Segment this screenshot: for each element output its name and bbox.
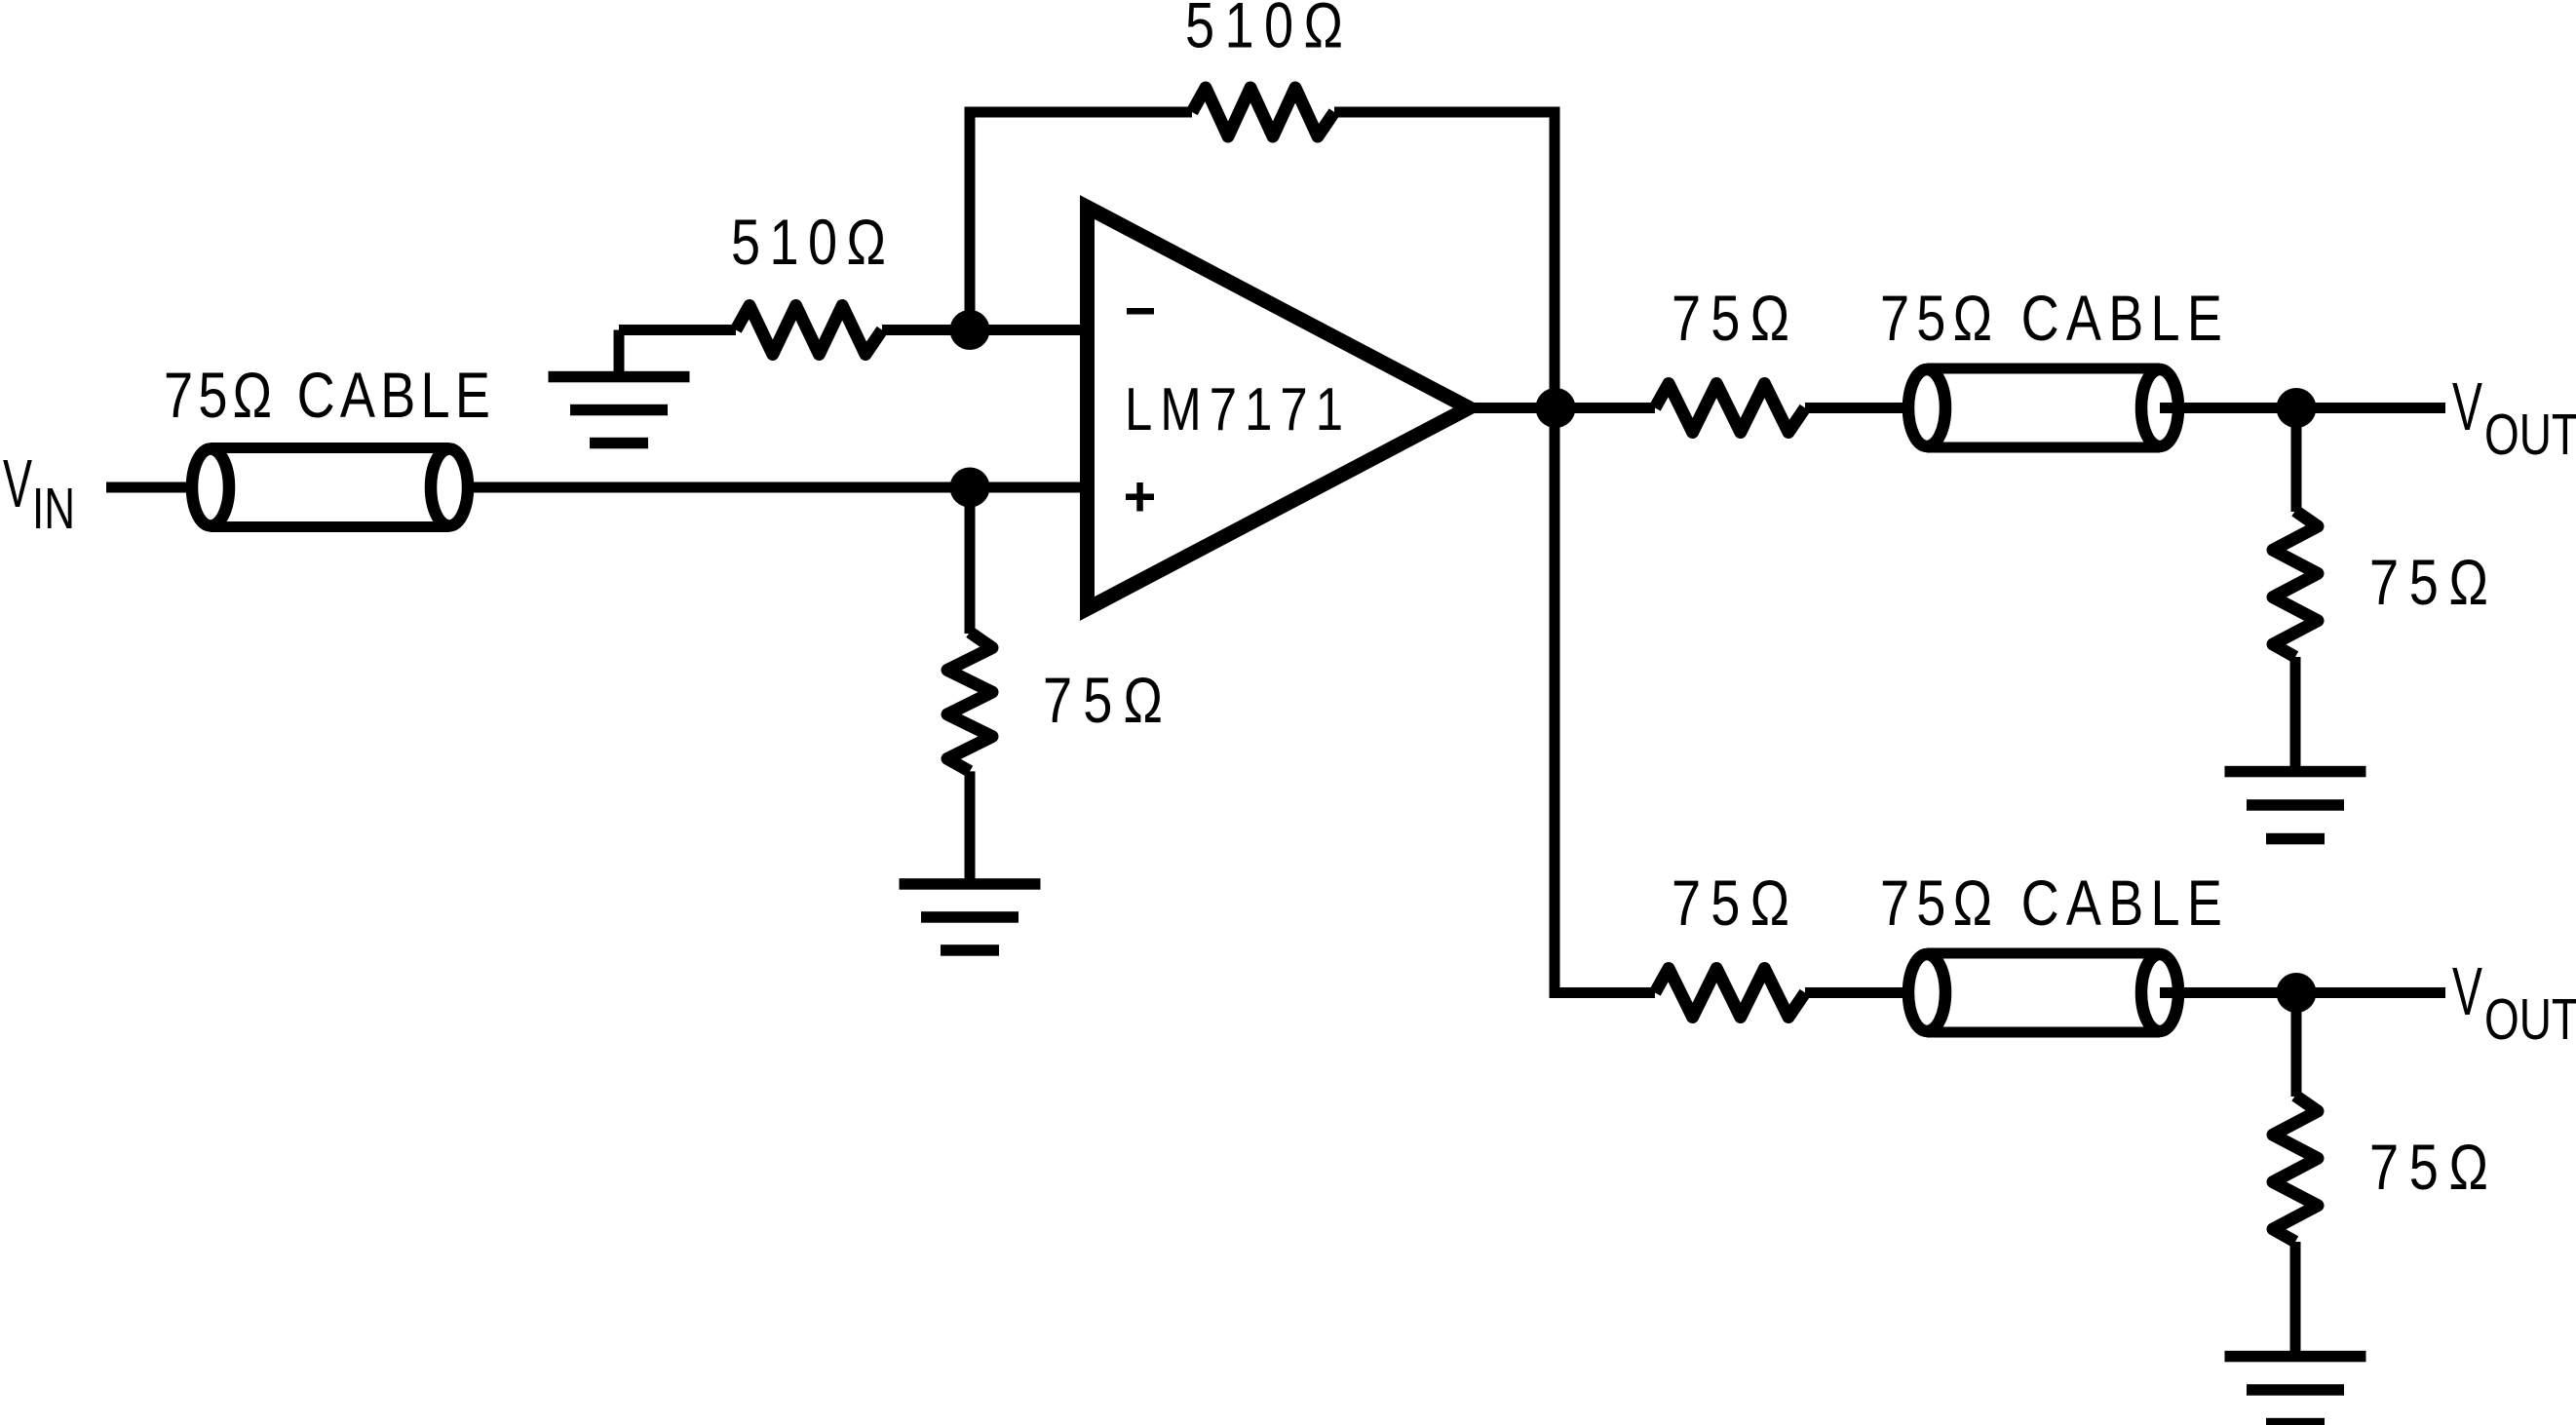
node C: output junction bbox=[1536, 388, 1576, 428]
label 75Ω CABLE (input) bbox=[164, 359, 490, 431]
wire feedback left vertical bbox=[965, 112, 976, 330]
label LM7171 bbox=[1125, 376, 1343, 443]
75Ω cable (input) bbox=[211, 443, 449, 453]
svg-text:75Ω: 75Ω bbox=[1672, 282, 1789, 354]
wire feedback top left bbox=[965, 107, 1193, 118]
wire R4 to top cable bbox=[1805, 403, 1927, 413]
node D: top VOUT junction bbox=[2277, 388, 2317, 428]
node B: inverting input junction bbox=[950, 310, 990, 350]
wire top cable to VOUT bbox=[2160, 403, 2445, 413]
wire bottom VOUT node down bbox=[2291, 993, 2302, 1098]
label 510Ω (R2) bbox=[1185, 0, 1343, 61]
label 75Ω CABLE (bottom) bbox=[1880, 867, 2222, 939]
resistor R5 75Ω (top termination) bbox=[2273, 511, 2318, 657]
svg-text:V: V bbox=[3, 446, 32, 522]
ground (input termination) bbox=[900, 878, 1041, 890]
label 75Ω (R4) bbox=[1672, 282, 1789, 354]
svg-text:V: V bbox=[2452, 954, 2482, 1030]
wire feedback top right bbox=[1334, 107, 1560, 118]
resistor R2 510Ω (feedback) bbox=[1192, 88, 1334, 136]
ground (inverting input reference) bbox=[614, 330, 625, 379]
label VIN bbox=[3, 446, 32, 522]
resistor R6 75Ω (bottom series) bbox=[1655, 969, 1805, 1018]
svg-text:75Ω: 75Ω bbox=[1043, 664, 1163, 736]
wire R3 to ground bbox=[965, 771, 976, 879]
label 75Ω (R3) bbox=[1043, 664, 1163, 736]
label 75Ω CABLE (top) bbox=[1880, 282, 2222, 354]
svg-text:75Ω: 75Ω bbox=[1672, 867, 1789, 939]
node E: bottom VOUT junction bbox=[2277, 973, 2317, 1013]
resistor R4 75Ω (top series) bbox=[1655, 384, 1805, 433]
wire output drop vertical bbox=[1550, 408, 1560, 993]
svg-text:510Ω: 510Ω bbox=[731, 206, 886, 278]
label 75Ω (R5) bbox=[2369, 546, 2488, 618]
svg-text:OUT: OUT bbox=[2484, 986, 2576, 1052]
wire feedback right vertical bbox=[1550, 112, 1560, 408]
svg-text:75Ω CABLE: 75Ω CABLE bbox=[1880, 282, 2222, 354]
svg-text:OUT: OUT bbox=[2484, 402, 2576, 467]
inverting input marker (−) bbox=[1127, 308, 1154, 315]
svg-text:510Ω: 510Ω bbox=[1185, 0, 1343, 61]
wire VIN lead bbox=[106, 482, 211, 493]
resistor R3 75Ω (input termination) bbox=[947, 633, 992, 772]
wire R1 to inverting input bbox=[882, 325, 1087, 335]
75Ω cable (bottom) bbox=[1927, 948, 2160, 959]
wire bottom cable to VOUT bbox=[2160, 987, 2445, 998]
75Ω cable (top) bbox=[1927, 364, 2160, 374]
wire input cable to noninverting input bbox=[449, 482, 1087, 493]
noninverting input marker (+) bbox=[1126, 494, 1154, 501]
wire R7 to ground bbox=[2290, 1242, 2301, 1352]
svg-text:75Ω: 75Ω bbox=[2369, 1131, 2488, 1203]
resistor R1 510Ω (input) bbox=[736, 306, 882, 355]
svg-text:V: V bbox=[2452, 369, 2482, 445]
label 75Ω (R7) bbox=[2369, 1131, 2488, 1203]
svg-text:75Ω: 75Ω bbox=[2369, 546, 2488, 618]
label 510Ω (R1) bbox=[731, 206, 886, 278]
resistor R7 75Ω (bottom termination) bbox=[2273, 1096, 2318, 1242]
node A: noninverting input junction bbox=[950, 468, 990, 508]
label VOUT (top) bbox=[2452, 369, 2482, 445]
svg-text:75Ω CABLE: 75Ω CABLE bbox=[1880, 867, 2222, 939]
ground (bottom termination) bbox=[2225, 1351, 2366, 1363]
label 75Ω (R6) bbox=[1672, 867, 1789, 939]
wire output to R4 bbox=[1556, 403, 1655, 413]
wire R5 to ground bbox=[2290, 657, 2301, 767]
wire op-amp output bbox=[1472, 403, 1556, 413]
wire top VOUT node down bbox=[2291, 408, 2302, 513]
wire noninverting node down bbox=[965, 487, 976, 634]
svg-text:IN: IN bbox=[32, 476, 75, 541]
wire ground to R1 bbox=[619, 325, 736, 335]
svg-text:75Ω CABLE: 75Ω CABLE bbox=[164, 359, 490, 431]
wire R6 to bottom cable bbox=[1805, 987, 1927, 998]
op-amp U1 LM7171 bbox=[1088, 208, 1470, 609]
label VOUT (bottom) bbox=[2452, 954, 2482, 1030]
ground (top termination) bbox=[2225, 766, 2366, 778]
wire bottom branch horizontal bbox=[1550, 987, 1656, 998]
